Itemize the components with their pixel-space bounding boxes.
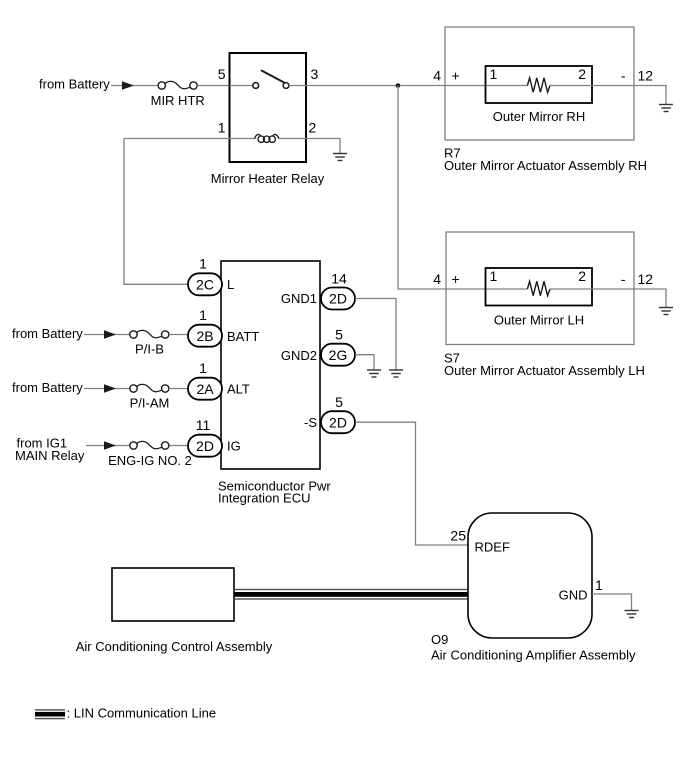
heater element box Outer Mirror RH bbox=[486, 66, 593, 103]
fuse label MIR HTR bbox=[151, 93, 205, 108]
arrow (IG row) bbox=[104, 441, 116, 450]
label RDEF bbox=[475, 540, 510, 555]
label Air Conditioning Amplifier Assembly bbox=[431, 648, 636, 663]
svg-text:-: - bbox=[621, 68, 626, 84]
svg-text:14: 14 bbox=[331, 271, 347, 287]
svg-text:Air Conditioning Control Assem: Air Conditioning Control Assembly bbox=[76, 639, 273, 654]
svg-text:1: 1 bbox=[199, 307, 207, 323]
wire fuse to 2B bbox=[169, 334, 188, 336]
wire relay pin1 left bbox=[124, 138, 255, 140]
label L bbox=[227, 277, 234, 292]
svg-text:1: 1 bbox=[218, 120, 226, 136]
label Semiconductor Pwr Integration ECU bbox=[218, 478, 331, 505]
connector pin 2A bbox=[188, 378, 222, 400]
svg-text:5: 5 bbox=[335, 394, 343, 410]
relay coil L1 bbox=[255, 135, 279, 143]
svg-text:2D: 2D bbox=[196, 438, 214, 454]
svg-text:L: L bbox=[227, 277, 234, 292]
resistor Outer Mirror RH heater bbox=[527, 78, 550, 92]
label Outer Mirror Actuator Assembly RH bbox=[444, 158, 647, 173]
svg-text:GND2: GND2 bbox=[281, 348, 317, 363]
wire amplifier GND to ground bbox=[592, 594, 632, 610]
junction node bbox=[396, 83, 401, 88]
connector pin 2B bbox=[188, 325, 222, 347]
svg-text:4: 4 bbox=[433, 271, 441, 287]
label O9 bbox=[431, 632, 448, 647]
label Outer Mirror Actuator Assembly LH bbox=[444, 363, 645, 378]
plus label (R7) bbox=[452, 68, 460, 84]
fuse label P/I-B bbox=[135, 341, 164, 356]
fuse MIR HTR bbox=[158, 81, 197, 89]
node from Battery (ALT row) bbox=[12, 380, 83, 395]
pin 1 label (Outer Mirror LH) bbox=[490, 268, 498, 284]
pin 2 label (Outer Mirror LH) bbox=[578, 268, 586, 284]
svg-text:1: 1 bbox=[595, 577, 603, 593]
svg-text:1: 1 bbox=[490, 66, 498, 82]
label BATT bbox=[227, 329, 259, 344]
svg-text:Outer Mirror LH: Outer Mirror LH bbox=[494, 312, 584, 327]
pin 12 label (S7) bbox=[638, 271, 654, 287]
wire from Battery to fuse P/I-AM bbox=[84, 388, 130, 390]
pin number 1 (2C) bbox=[199, 256, 207, 272]
svg-text:2: 2 bbox=[578, 66, 586, 82]
wire from Battery to fuse MIR HTR bbox=[111, 85, 158, 87]
svg-text:MIR HTR: MIR HTR bbox=[151, 93, 205, 108]
connector pin 2D (IG) bbox=[188, 435, 222, 457]
fuse ENG-IG NO. 2 bbox=[130, 441, 169, 449]
svg-text:1: 1 bbox=[199, 256, 207, 272]
arrow from Battery bbox=[122, 81, 134, 90]
svg-text:11: 11 bbox=[196, 417, 211, 433]
ECU box Semiconductor Pwr Integration ECU bbox=[221, 261, 320, 469]
pin number 5 (-S 2D) bbox=[335, 394, 343, 410]
svg-text:RDEF: RDEF bbox=[475, 540, 510, 555]
label -S bbox=[304, 415, 317, 430]
svg-text:25: 25 bbox=[450, 528, 466, 544]
pin 2 label (relay coil) bbox=[309, 120, 317, 136]
pin 3 label bbox=[311, 66, 319, 82]
svg-text:12: 12 bbox=[638, 68, 654, 84]
node from IG1 MAIN Relay bbox=[15, 435, 85, 463]
label Air Conditioning Control Assembly bbox=[76, 639, 273, 654]
relay switch wire pin5 to contact bbox=[230, 85, 253, 87]
node from Battery (MIR HTR row) bbox=[39, 77, 110, 92]
pin 1 label (relay coil) bbox=[218, 120, 226, 136]
wire fuse to 2A bbox=[169, 388, 188, 390]
svg-text:+: + bbox=[452, 271, 460, 287]
wire from IG1 to fuse ENG-IG NO. 2 bbox=[86, 445, 130, 447]
pin 2 label (Outer Mirror RH) bbox=[578, 66, 586, 82]
svg-text:ALT: ALT bbox=[227, 382, 250, 397]
svg-text:Integration ECU: Integration ECU bbox=[218, 491, 311, 506]
svg-text:5: 5 bbox=[218, 66, 226, 82]
svg-text:from Battery: from Battery bbox=[12, 326, 83, 341]
svg-text:P/I-B: P/I-B bbox=[135, 341, 164, 356]
pin 5 label bbox=[218, 66, 226, 82]
svg-text:BATT: BATT bbox=[227, 329, 259, 344]
label IG bbox=[227, 439, 241, 454]
svg-text:3: 3 bbox=[311, 66, 319, 82]
svg-text:2: 2 bbox=[578, 268, 586, 284]
svg-text:O9: O9 bbox=[431, 632, 448, 647]
pin number 1 (2A) bbox=[199, 360, 207, 376]
heater element box Outer Mirror LH bbox=[486, 268, 593, 306]
minus label (R7) bbox=[621, 68, 626, 84]
svg-text:MAIN Relay: MAIN Relay bbox=[15, 448, 85, 463]
svg-text:P/I-AM: P/I-AM bbox=[130, 395, 170, 410]
svg-text:5: 5 bbox=[335, 327, 343, 343]
svg-text:Outer Mirror RH: Outer Mirror RH bbox=[493, 109, 585, 124]
svg-text:2D: 2D bbox=[329, 291, 347, 307]
fuse P/I-B bbox=[130, 330, 169, 338]
svg-text:1: 1 bbox=[199, 360, 207, 376]
pin number 14 (GND1 2D) bbox=[331, 271, 347, 287]
pin number 1 (2B) bbox=[199, 307, 207, 323]
svg-text:1: 1 bbox=[490, 268, 498, 284]
label Outer Mirror LH bbox=[494, 312, 584, 327]
ground (GND2) bbox=[367, 370, 381, 377]
relay switch wire contact to pin3 bbox=[289, 85, 306, 87]
svg-text:Mirror Heater Relay: Mirror Heater Relay bbox=[211, 171, 325, 186]
pin 25 label (RDEF) bbox=[450, 528, 466, 544]
label S7 bbox=[444, 350, 460, 365]
svg-text:Air Conditioning Amplifier Ass: Air Conditioning Amplifier Assembly bbox=[431, 648, 636, 663]
pin 12 label (R7) bbox=[638, 68, 654, 84]
svg-text:2: 2 bbox=[309, 120, 317, 136]
wire GND1 to ground bbox=[355, 299, 396, 370]
ground (amplifier) bbox=[625, 611, 639, 618]
wire fuse to relay pin 5 bbox=[197, 85, 229, 87]
svg-text:+: + bbox=[452, 68, 460, 84]
ground (GND1) bbox=[389, 370, 403, 377]
R7 assembly box bbox=[445, 27, 634, 140]
label GND1 bbox=[281, 291, 317, 306]
node from Battery (BATT row) bbox=[12, 326, 83, 341]
wire GND2 to ground bbox=[355, 355, 374, 370]
ground (R7) bbox=[659, 105, 673, 112]
label ALT bbox=[227, 382, 250, 397]
pin number 5 (GND2 2G) bbox=[335, 327, 343, 343]
fuse label ENG-IG NO. 2 bbox=[108, 453, 192, 468]
wire resistor to ground (S7) bbox=[550, 289, 666, 307]
arrow (BATT row) bbox=[104, 330, 116, 339]
svg-text:Outer Mirror Actuator Assembly: Outer Mirror Actuator Assembly RH bbox=[444, 158, 647, 173]
S7 assembly box bbox=[446, 232, 634, 345]
label GND bbox=[559, 588, 588, 603]
wire junction to S7 pin 4 bbox=[398, 86, 527, 290]
svg-text:Outer Mirror Actuator Assembly: Outer Mirror Actuator Assembly LH bbox=[444, 363, 645, 378]
LIN communication line (control to amplifier) bbox=[234, 589, 468, 600]
legend label LIN Communication Line bbox=[67, 706, 217, 721]
plus label (S7) bbox=[452, 271, 460, 287]
fuse P/I-AM bbox=[130, 384, 169, 392]
connector pin 2G (GND2) bbox=[321, 344, 355, 366]
svg-text:from Battery: from Battery bbox=[39, 77, 110, 92]
wire fuse to 2D bbox=[169, 445, 188, 447]
resistor Outer Mirror LH heater bbox=[527, 281, 550, 295]
svg-text:ENG-IG NO. 2: ENG-IG NO. 2 bbox=[108, 453, 192, 468]
pin number 11 (2D) bbox=[196, 417, 211, 433]
relay label bbox=[211, 171, 325, 186]
pin 4 label (R7) bbox=[433, 68, 441, 84]
svg-text:-S: -S bbox=[304, 415, 317, 430]
wire relay pin3 to R7 bbox=[306, 85, 527, 87]
wire resistor to ground (R7) bbox=[550, 86, 666, 105]
svg-text:2C: 2C bbox=[196, 276, 214, 292]
svg-text:2A: 2A bbox=[196, 381, 214, 397]
pin 1 label (Outer Mirror RH) bbox=[490, 66, 498, 82]
svg-text:GND: GND bbox=[559, 588, 588, 603]
connector pin 2D (GND1) bbox=[321, 288, 355, 310]
connector pin 2D (-S) bbox=[321, 411, 355, 433]
svg-text:-: - bbox=[621, 271, 626, 287]
wire relay coil to pin2 bbox=[279, 138, 306, 140]
fuse label P/I-AM bbox=[130, 395, 170, 410]
arrow (ALT row) bbox=[104, 384, 116, 393]
wire from Battery to fuse P/I-B bbox=[84, 334, 130, 336]
label R7 bbox=[444, 146, 461, 161]
pin 1 label (amplifier GND) bbox=[595, 577, 603, 593]
wire -S to RDEF bbox=[355, 422, 468, 545]
label Outer Mirror RH bbox=[493, 109, 585, 124]
relay switch contacts and blade bbox=[253, 70, 289, 88]
svg-text:GND1: GND1 bbox=[281, 291, 317, 306]
wire ECU pin 2C up to relay pin 1 bbox=[124, 139, 188, 285]
wire pin2 to ground bbox=[306, 139, 340, 154]
ground (relay pin 2) bbox=[333, 154, 347, 161]
connector pin 2C bbox=[188, 273, 222, 295]
label GND2 bbox=[281, 348, 317, 363]
svg-text:2B: 2B bbox=[196, 328, 213, 344]
Air Conditioning Control Assembly box bbox=[112, 568, 234, 621]
svg-text:IG: IG bbox=[227, 439, 241, 454]
svg-text:2D: 2D bbox=[329, 414, 347, 430]
svg-text:2G: 2G bbox=[329, 347, 348, 363]
relay box Mirror Heater Relay bbox=[230, 53, 307, 162]
ground (S7) bbox=[659, 308, 673, 315]
minus label (S7) bbox=[621, 271, 626, 287]
svg-text:from Battery: from Battery bbox=[12, 380, 83, 395]
svg-text:: LIN Communication Line: : LIN Communication Line bbox=[67, 706, 217, 721]
svg-text:12: 12 bbox=[638, 271, 654, 287]
svg-text:4: 4 bbox=[433, 68, 441, 84]
Air Conditioning Amplifier Assembly box O9 bbox=[468, 513, 592, 638]
legend LIN line symbol bbox=[35, 709, 65, 719]
pin 4 label (S7) bbox=[433, 271, 441, 287]
